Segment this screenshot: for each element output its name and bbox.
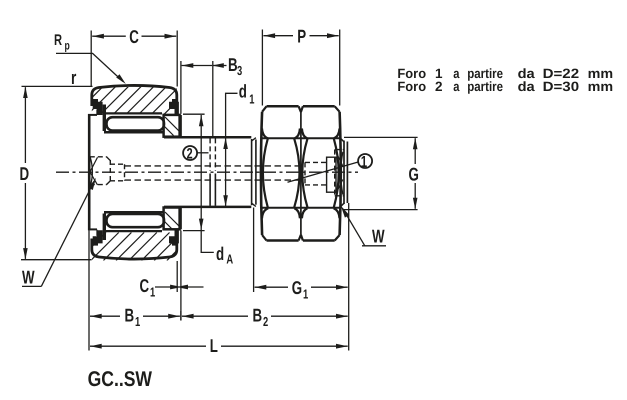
socket inner box hidden: [110, 164, 125, 181]
dimension dA ext bottom: [183, 230, 205, 232]
svg-text:d: d: [216, 243, 224, 264]
stud head bottom shoulder: [88, 228, 97, 230]
dimension G1 ext left: [253, 208, 255, 293]
svg-text:1: 1: [249, 92, 254, 107]
svg-text:D=30: D=30: [543, 79, 580, 94]
dimension C line: [92, 35, 126, 37]
dimension B2 line: [182, 315, 248, 317]
dA arrow down: [199, 219, 204, 230]
svg-text:GC..SW: GC..SW: [88, 367, 153, 391]
inner ring lip top-left: [103, 105, 106, 132]
dimension L line: [90, 345, 206, 347]
dimension d1 arrow line: [225, 138, 227, 206]
svg-text:W: W: [22, 267, 35, 288]
svg-text:mm: mm: [588, 79, 614, 94]
dimension B1/B2 ext mid: [180, 311, 182, 321]
dimension B3 ext left: [180, 61, 182, 114]
dimension d1 leader: [226, 93, 238, 137]
dimension D ext bottom: [21, 259, 92, 261]
note line 2: [397, 79, 613, 94]
svg-text:1: 1: [135, 314, 140, 329]
seal top-left: [93, 102, 103, 115]
hex side arcs c1 mid: [263, 139, 300, 208]
W left arrowhead: [88, 178, 96, 190]
C1 arrow right: [182, 286, 204, 288]
dA leader elbow: [201, 230, 214, 252]
note line 1: [397, 66, 613, 81]
dimension L line b: [221, 345, 348, 347]
hex top edge col2: [303, 105, 335, 108]
outer ring top bore line: [105, 112, 162, 114]
grease groove hidden upper: [210, 138, 215, 171]
labyrinth step top: [96, 109, 98, 115]
svg-text:da: da: [518, 79, 536, 94]
collar bottom hatch: [165, 212, 180, 227]
svg-text:L: L: [210, 335, 218, 356]
outer ring bottom bore line: [105, 230, 162, 232]
dimension right ext: [348, 203, 350, 351]
right socket cone diagonals: [336, 152, 343, 166]
G arrow down: [413, 198, 418, 209]
svg-text:P: P: [297, 25, 306, 46]
dimension C line b: [142, 35, 177, 37]
circled 2 leader: [197, 152, 209, 154]
d1 arrow up: [223, 138, 228, 149]
dimension D ext top: [22, 85, 93, 87]
G arrow up: [413, 138, 418, 149]
C1 arrow left: [155, 286, 176, 288]
outer ring top hatch: [75, 87, 192, 115]
centerline: [56, 171, 358, 173]
Rp leader: [56, 53, 123, 81]
collar bottom section: [164, 208, 180, 230]
dimension B1 line b: [143, 315, 180, 317]
hex bottom edge col2: [303, 239, 335, 242]
outer ring top section: [92, 85, 177, 106]
d1 arrow down: [223, 195, 228, 206]
svg-text:B: B: [228, 54, 238, 75]
hex top chamfer corners: [262, 106, 340, 112]
collar right face: [179, 115, 182, 137]
grease groove lower 2: [214, 174, 216, 206]
left socket cone: [90, 158, 92, 187]
hex right silhouette: [340, 112, 341, 235]
circled 1 leader: [288, 162, 359, 182]
dimension P line: [263, 35, 293, 37]
inner race line bottom: [104, 211, 165, 214]
labyrinth step bottom: [96, 230, 98, 236]
stud outline bottom: [164, 206, 251, 209]
inner race line top: [104, 131, 165, 134]
svg-text:D: D: [20, 163, 30, 184]
dimension P extension right: [339, 30, 341, 106]
svg-text:r: r: [71, 68, 77, 89]
hex corner arcs c1 bottom: [262, 208, 300, 218]
svg-text:G: G: [292, 277, 302, 298]
right socket hidden outline: [305, 150, 344, 196]
inner ring lip bottom-left: [103, 214, 106, 241]
dimension B1 line: [90, 315, 120, 317]
W left leader: [41, 185, 92, 287]
svg-text:1: 1: [150, 284, 155, 299]
stud outline top: [164, 136, 251, 139]
W right arrowhead: [341, 206, 350, 218]
circled 1: [358, 154, 372, 168]
svg-text:2: 2: [187, 145, 193, 162]
right socket cone diagonal 2: [336, 180, 343, 194]
svg-text:R: R: [54, 32, 62, 49]
dimension C1 ext right: [180, 231, 182, 321]
axial hole hidden lines: [125, 166, 306, 180]
seal top-right: [169, 102, 179, 115]
needle rollers top: [107, 117, 165, 130]
dimension G1 line: [255, 286, 288, 288]
hex corner arcs c1 top: [262, 129, 300, 139]
svg-text:3: 3: [237, 63, 242, 78]
svg-text:a: a: [453, 79, 460, 94]
stud head face: [88, 114, 91, 230]
D arrow up: [23, 87, 28, 98]
washer relief line 1: [251, 139, 253, 205]
svg-text:W: W: [372, 225, 385, 246]
seal lip nub bottom-right: [172, 242, 177, 245]
washer chamfer bl: [252, 203, 256, 206]
W right underline: [362, 245, 386, 247]
hex side arcs c2 mid: [302, 139, 338, 208]
svg-text:1: 1: [361, 154, 367, 171]
svg-text:B: B: [125, 305, 135, 326]
dimension G line bottom: [414, 183, 416, 209]
dimension D line top: [24, 87, 26, 163]
outer ring bottom hatch: [78, 233, 195, 261]
hex bottom edge col1: [267, 239, 299, 242]
dimension D line bottom: [24, 183, 26, 259]
svg-text:1: 1: [303, 286, 308, 301]
dimension G ext bottom: [343, 209, 418, 211]
dimension C extension right: [176, 31, 178, 87]
circled 2: [183, 146, 197, 160]
dimension C extension left: [90, 31, 92, 87]
dimension dA ext top: [183, 113, 205, 115]
hex corner arcs c2 bottom: [302, 208, 340, 218]
hex face line bottom: [261, 207, 341, 209]
dimension B2 line b: [271, 315, 348, 317]
hex top edge col1: [267, 105, 299, 108]
dA arrow up: [199, 115, 204, 126]
collar right face bottom: [179, 208, 182, 230]
stud head top shoulder: [88, 114, 97, 116]
dimension B3 tail: [213, 65, 227, 67]
collar top hatch 2: [165, 127, 174, 136]
hex middle corner edge: [300, 112, 302, 235]
seal lip nub top-left: [93, 99, 98, 102]
seal lip nub top-right: [172, 99, 177, 102]
svg-text:partire: partire: [467, 79, 503, 94]
dimension G line top: [414, 138, 416, 164]
washer relief line 2: [255, 140, 257, 205]
D arrow down: [23, 248, 28, 259]
dimension C1 ext left: [176, 261, 178, 292]
svg-text:Foro: Foro: [397, 79, 426, 94]
svg-text:d: d: [239, 81, 247, 102]
right end chamfer bottom: [340, 203, 344, 207]
dimension P extension left: [261, 30, 263, 106]
seal lip nub bottom-left: [93, 242, 98, 245]
collar bottom hatch 2: [165, 222, 174, 231]
hex bottom chamfer corners: [262, 235, 340, 241]
W left underline: [22, 285, 41, 287]
right end chamfer top: [340, 138, 344, 142]
dimension B1/B2 ext left: [88, 231, 90, 351]
dimension dA arrow line: [200, 115, 202, 230]
svg-text:C: C: [129, 26, 139, 47]
dimension G ext top: [344, 136, 418, 138]
left socket hidden outline: [90, 157, 111, 185]
hex face line top: [261, 137, 341, 139]
right end cap line1: [343, 141, 345, 205]
hex left silhouette: [261, 112, 262, 235]
collar top section: [164, 115, 180, 137]
dimension P line b: [310, 35, 339, 37]
svg-text:C: C: [140, 275, 150, 296]
dimension B3 line: [182, 65, 213, 67]
svg-text:B: B: [253, 305, 263, 326]
seal bottom-right: [169, 230, 179, 243]
collar top hatch: [165, 117, 179, 131]
left socket cone diagonal 2: [90, 172, 97, 185]
dimension G1 line b: [311, 286, 348, 288]
grease groove lower: [209, 174, 211, 206]
right end cap line2: [346, 142, 348, 204]
svg-text:2: 2: [435, 79, 443, 94]
outer ring bottom section: [92, 239, 177, 260]
svg-text:2: 2: [263, 314, 268, 329]
needle rollers bottom: [107, 214, 165, 227]
dimension B3 ext right: [212, 61, 214, 136]
washer chamfer tl: [252, 138, 256, 141]
seal bottom-left: [93, 230, 103, 243]
svg-text:A: A: [226, 252, 233, 267]
svg-text:p: p: [65, 39, 70, 53]
left socket cone diagonals: [90, 157, 97, 171]
hex corner arcs c2 top: [302, 129, 340, 139]
right socket counterbore: [327, 157, 336, 192]
right socket cone: [341, 152, 343, 195]
W right leader: [343, 209, 365, 246]
svg-text:G: G: [409, 163, 419, 184]
Rp arrowhead: [116, 74, 126, 84]
